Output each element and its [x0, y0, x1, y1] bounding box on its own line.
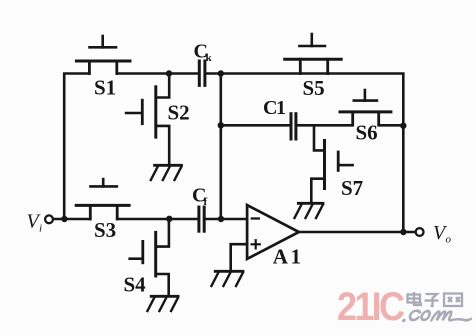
node dot: Ck right / summing rail top [218, 70, 224, 76]
node dot: output at right rail [400, 229, 406, 235]
svg-text:S4: S4 [124, 273, 147, 297]
svg-text:S7: S7 [341, 176, 363, 200]
transistor S2 (vertical MOSFET to ground) [126, 74, 169, 165]
ground under S2 [151, 165, 182, 180]
ground under S4 [147, 296, 178, 311]
label Vo [433, 222, 452, 246]
node dot: S2 drain on top rail [166, 70, 172, 76]
node dot: Cf right / summing junction [218, 216, 224, 222]
svg-text:i: i [39, 223, 42, 235]
svg-text:f: f [204, 196, 208, 208]
node dot: Vi input node [61, 216, 67, 222]
wire: left vertical rail from S1 left lead down to Vi node [64, 74, 89, 220]
wire: Cf right plate to op-amp inverting input [204, 218, 247, 221]
svg-text:C1: C1 [263, 97, 285, 119]
label Vi [27, 211, 43, 235]
node dot: summing rail at C1 row [218, 122, 224, 128]
svg-text:A1: A1 [273, 244, 304, 268]
watermark .com script [402, 306, 476, 326]
transistor S5 (horizontal MOSFET switch, wire continuous beneath) [285, 34, 342, 74]
svg-text:S6: S6 [356, 121, 378, 145]
watermark CJK dian-zi-wang [406, 291, 468, 311]
wire: C1 row from summing rail to C1 left plate [221, 124, 290, 127]
wire: top rail from Ck right plate under S5 to right corner, down right rail [206, 74, 403, 233]
terminal Vo (open circle) [416, 228, 424, 236]
label Cf [192, 185, 208, 209]
glyph dian [408, 292, 422, 305]
svg-text:k: k [206, 52, 213, 64]
op-amp A1 triangle [247, 205, 299, 259]
wire: non-inverting input to ground [231, 244, 247, 271]
svg-text:S1: S1 [94, 76, 116, 100]
wire: op-amp output to Vo terminal [299, 231, 416, 234]
node dot: C1 row at right rail [400, 123, 406, 129]
watermark 21IC [337, 292, 402, 322]
wire: top rail from S1 right leg to Ck left plate [117, 72, 198, 75]
capacitor Ck plates [199, 61, 205, 85]
op-amp minus sign [252, 217, 259, 219]
terminal Vi (open circle) [45, 215, 53, 223]
capacitor Cf plates [199, 207, 204, 231]
glyph zi [425, 294, 439, 306]
transistor S1 (horizontal MOSFET switch) [76, 36, 130, 74]
transistor S6 (horizontal MOSFET switch) [340, 90, 391, 124]
node: summing vertical rail (Ck right to Cf right) [220, 74, 223, 220]
svg-text:S3: S3 [94, 218, 116, 242]
op-amp plus sign [252, 240, 260, 248]
transistor S4 (vertical MOSFET to ground) [130, 219, 169, 296]
ground under op-amp plus input [211, 271, 243, 286]
ground under S7 [295, 203, 324, 218]
svg-text:S2: S2 [168, 101, 190, 125]
capacitor C1 plates [291, 114, 296, 139]
transistor S3 (horizontal MOSFET switch on input row) [76, 179, 129, 219]
wire: S6 right leg to right rail [379, 124, 404, 127]
node dot: S4 drain on bottom rail [166, 216, 172, 222]
svg-text:S5: S5 [303, 76, 325, 100]
glyph wang [444, 294, 462, 307]
transistor S7 (vertical MOSFET to ground, gate on right) [311, 125, 352, 202]
wire: bottom rail from Vi terminal to Cf left plate [53, 218, 198, 221]
label Ck [194, 41, 213, 65]
wire: C1 right plate to S6 left leg [297, 124, 353, 127]
svg-text:o: o [446, 234, 452, 246]
